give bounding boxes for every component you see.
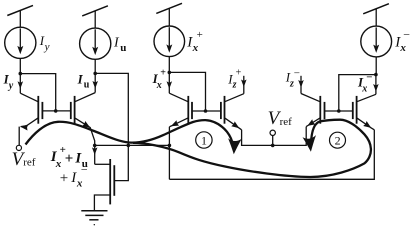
svg-text:+: + [236,67,242,78]
wire I_z+ output stub [243,76,245,94]
feedback swoosh arrow from Vref over pair0 to node (loop 1 path) [26,120,234,146]
svg-text:ref: ref [23,157,36,169]
label I_x- (top) [394,27,410,54]
svg-text:I: I [77,71,84,86]
wire M3 source down to bottom loop [168,127,170,180]
current source I_x- [361,26,392,57]
current source I_y [5,27,36,58]
transistor M6 (pair2 right, I_x- diode) [353,94,376,130]
supply rail tick of I_y source [7,5,33,27]
transistor M7 (NMOS, sums currents) [94,159,114,211]
current arrow I_x+ branch [167,72,173,93]
label I_x- (bold, branch) [357,72,373,95]
node dot I_x+ branch [168,71,172,75]
wire Vref mid stem [272,136,274,146]
svg-text:x: x [399,42,406,54]
label I_z- [285,67,300,89]
svg-text:−: − [294,67,300,79]
label I_z+ [227,67,241,90]
svg-text:z: z [289,78,294,89]
wire I_z- output stub [300,76,302,94]
svg-text:I: I [113,35,120,50]
wire middle (pair1/pair2 sources) [242,127,307,146]
arrow M1 source lead [20,124,28,131]
svg-text:−: − [366,72,372,84]
wire I_x- source to node [375,57,377,75]
loop marker 2 (circled digit) [330,132,346,148]
node dot Vref mid tap [271,144,275,148]
svg-text:+: + [160,68,166,79]
gate wire pair0 [42,110,70,112]
wire I_x- gate feed [339,75,376,111]
arrow M5 source lead [306,119,316,128]
svg-text:x: x [156,80,162,91]
label I_u (bold, branch) [77,71,90,90]
supply rail tick of I_x- source [363,4,389,27]
terminal Vref (left, open circle) [16,145,21,150]
terminal Vref (middle, open circle) [270,130,275,135]
transistor M1 (pair0 left, I_y diode) [20,93,42,126]
svg-text:u: u [120,42,126,54]
svg-text:y: y [8,80,14,91]
svg-text:x: x [361,83,367,94]
label sum current line1: I_x+ + I_u [50,144,88,170]
supply rail tick of I_u source [82,6,108,28]
current arrow I_z- [298,80,304,88]
arrow M6 source lead [363,121,373,130]
current arrow I_y branch [18,74,24,94]
gate wire pair2 [325,110,353,112]
bottom sweep swoosh to loop 2 [133,120,371,177]
gate wire pair1 [192,110,221,112]
svg-text:2: 2 [335,134,341,148]
wire I_u source to node [94,59,96,73]
transistor M3 (pair1 left, I_x+ branch) [169,93,192,127]
node dot pair1 gates [204,109,208,113]
label I_y (top) [39,33,50,53]
svg-text:y: y [44,41,50,53]
arrow M4 source lead [231,121,241,130]
arrow M3 source lead [170,120,180,129]
node dot I_u branch [93,72,97,76]
wire M1 source to Vref terminal [18,127,20,146]
svg-text:+: + [60,171,68,187]
wire I_x+ source to node [168,57,170,73]
wire I_u to NMOS gate [95,73,128,180]
wire node A horizontal (NMOS drain node) [95,144,170,146]
wire I_y gate feed [20,74,55,111]
svg-text:x: x [192,42,199,54]
label I_x+ (bold, branch) [152,68,167,91]
node dot I_y branch [19,72,23,76]
svg-text:x: x [76,178,83,190]
node dot drain node left [93,144,97,148]
node dot I_x- branch [374,73,378,77]
label sum current line2: + I_x- [60,163,88,190]
node dot pair0 gates [54,109,58,113]
current arrow I_u branch [92,73,98,92]
svg-text:ref: ref [280,116,293,128]
svg-text:z: z [232,80,237,91]
supply rail tick of I_x+ source [156,3,182,26]
svg-text:−: − [81,163,88,177]
node dot loop left junction [168,144,172,148]
label I_u (top) [113,35,126,54]
svg-text:+: + [197,29,203,41]
loop marker 1 (circled digit) [196,132,212,148]
current source I_x+ [154,26,185,57]
current source I_u [80,28,111,59]
label Vref (left) [12,149,36,170]
big arrowhead loop 1 [227,138,242,155]
label Vref (middle) [268,108,293,129]
svg-text:u: u [84,80,90,91]
svg-text:−: − [403,27,410,41]
label I_x+ (top) [186,29,203,54]
svg-text:x: x [55,158,62,170]
transistor M5 (pair2 left, I_z- branch) [301,94,325,127]
current arrow I_x- branch [373,75,379,95]
big arrowhead loop 2 [302,135,317,152]
label I_y (bold, branch) [3,71,14,91]
svg-text:+: + [65,151,74,167]
current arrow I_z+ [241,79,247,87]
node dot pair2 gates [337,109,341,113]
wire I_y source to node [19,58,21,73]
current arrow into NMOS drain [92,145,98,164]
svg-text:1: 1 [201,134,207,148]
ground [81,211,107,226]
wire I_x+ gate feed [169,72,205,111]
transistor M2 (pair0 right, I_u follower) [71,93,95,146]
wire bottom loop [169,130,374,180]
node dot gate line crossing [127,144,131,148]
arrow M2 source lead [82,121,92,130]
transistor M4 (pair1 right, I_z+ branch) [221,94,244,130]
